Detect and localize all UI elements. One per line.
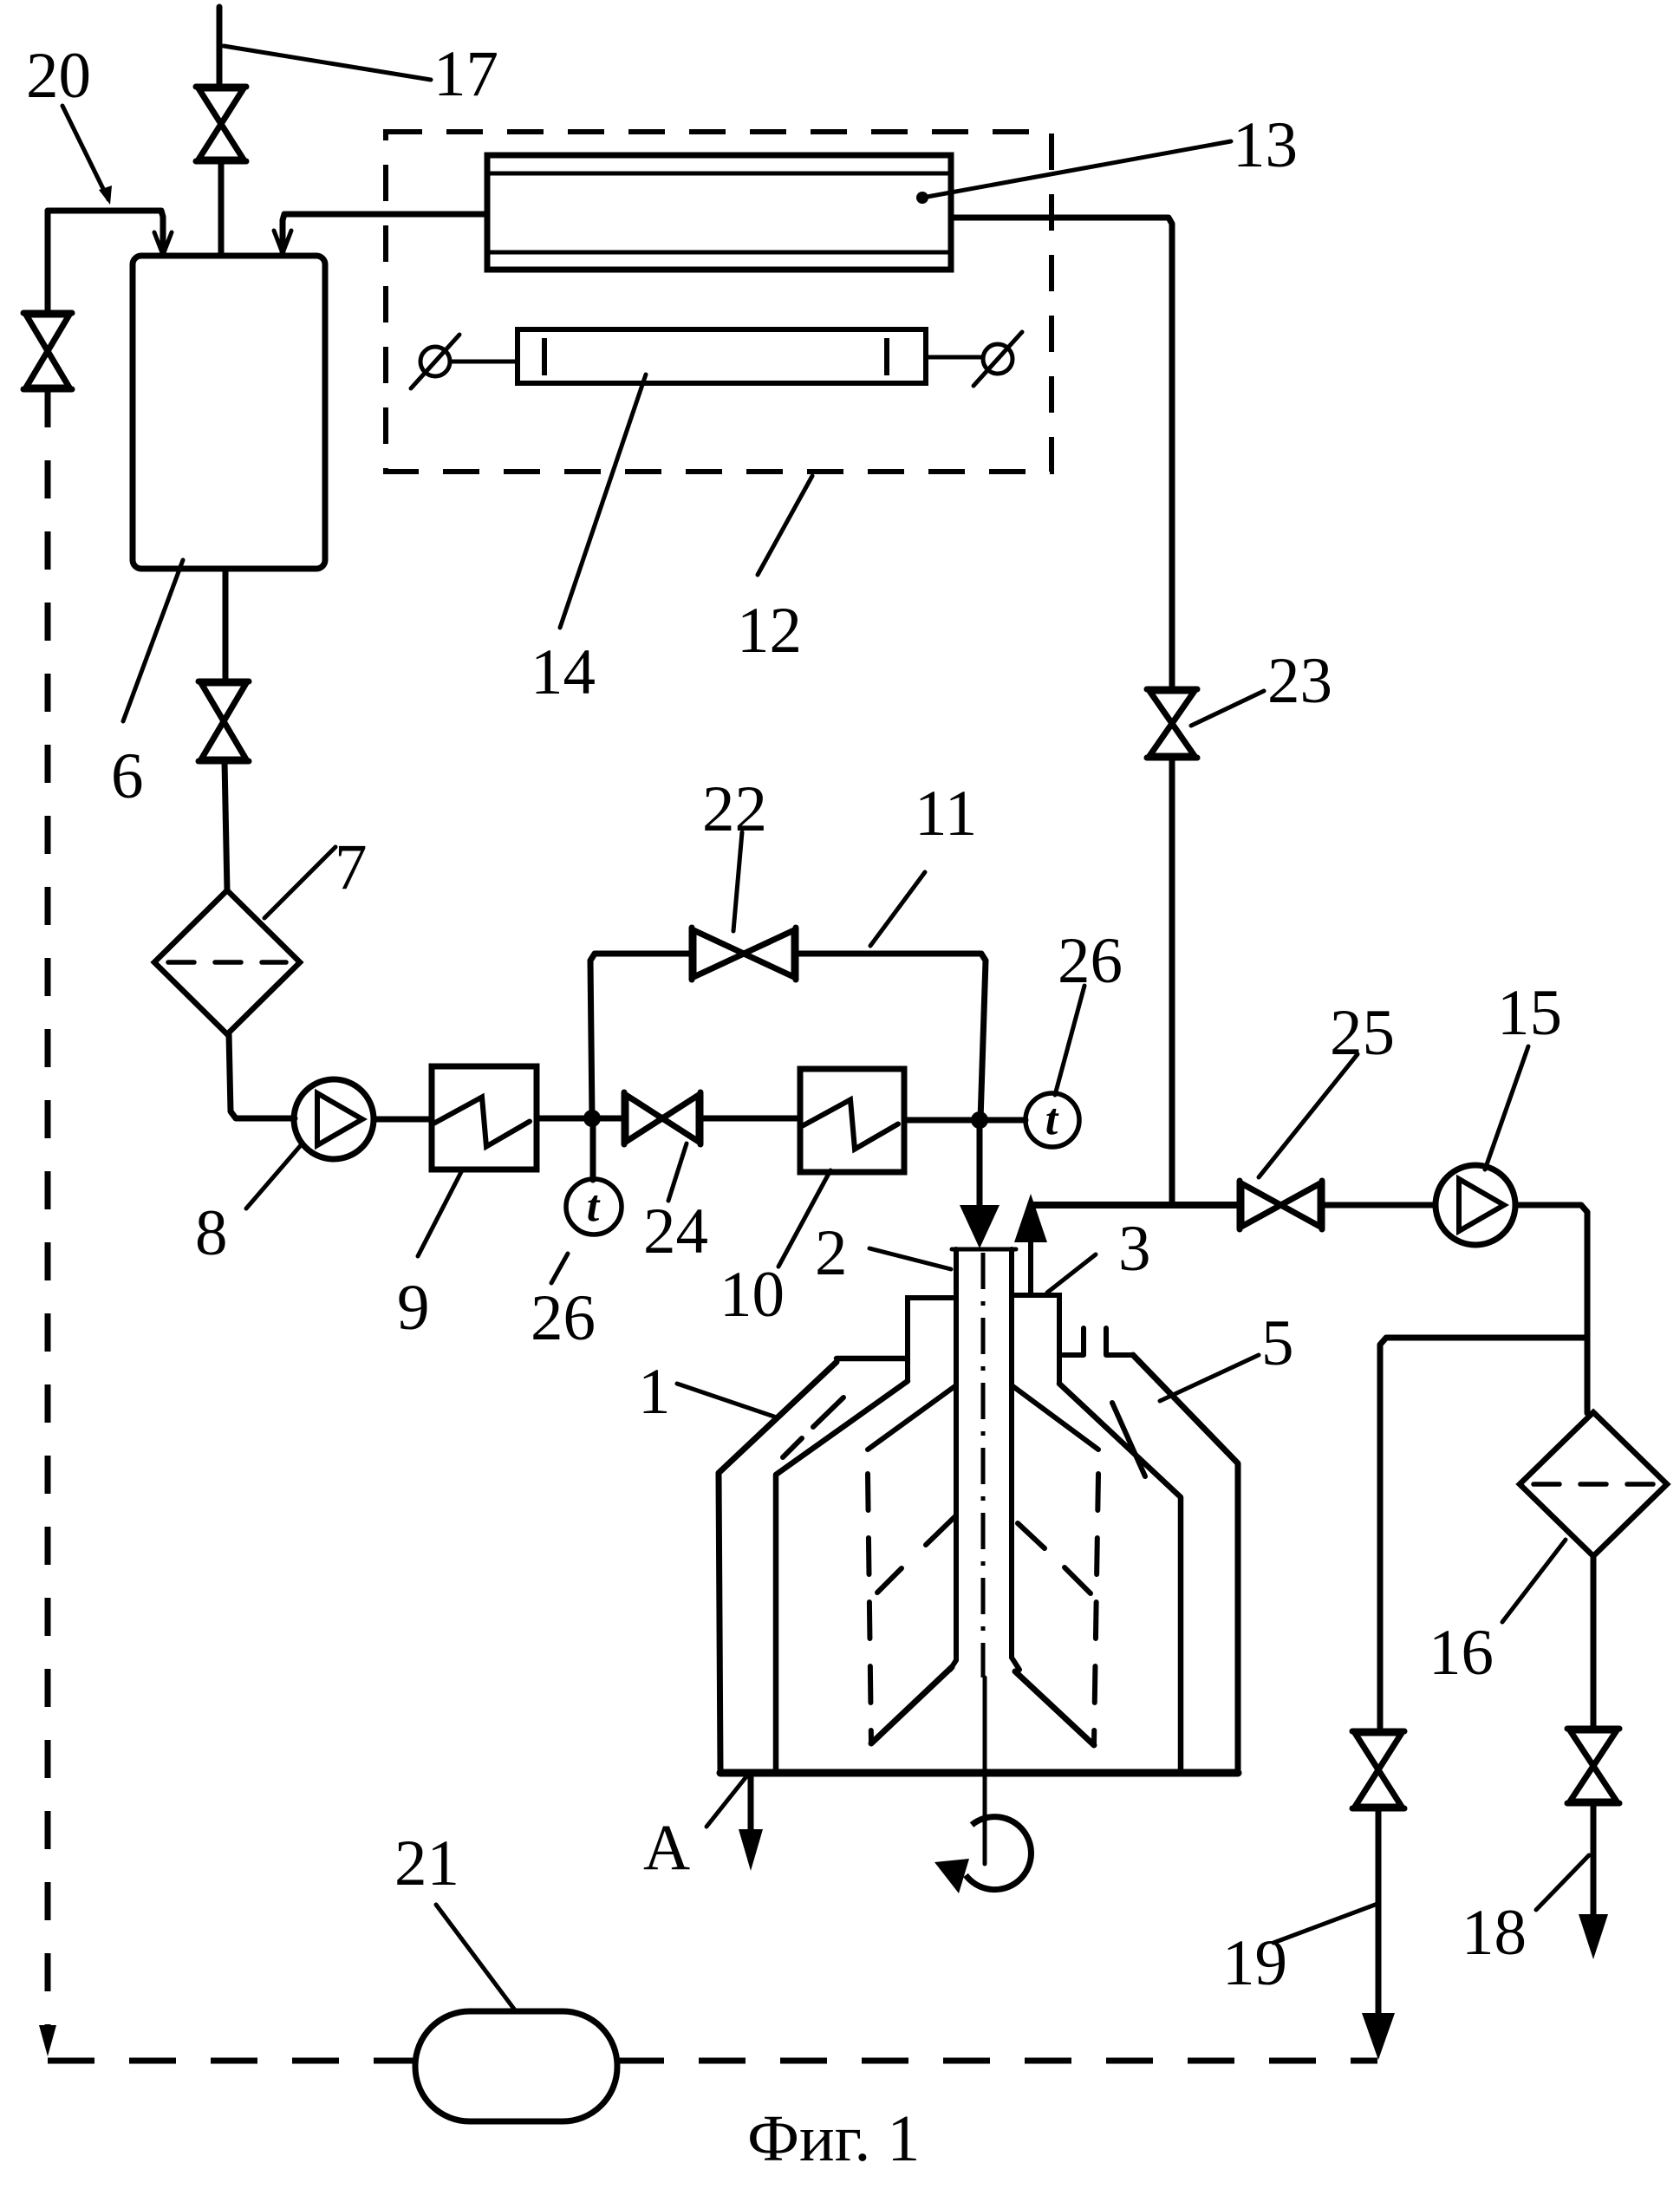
svg-text:13: 13 xyxy=(1233,109,1298,181)
leader 16 xyxy=(1502,1540,1566,1622)
svg-text:14: 14 xyxy=(531,636,596,708)
leader 5 xyxy=(1160,1355,1259,1401)
pipe condenser 13 to valve 23 xyxy=(951,218,1172,689)
valve 17 xyxy=(196,87,246,161)
svg-text:t: t xyxy=(1045,1095,1059,1144)
pipe pump 8 to heater 9 xyxy=(374,1117,432,1123)
rotation symbol xyxy=(966,1817,1031,1890)
arrow into tank left xyxy=(154,232,172,255)
leader 1 xyxy=(677,1384,774,1417)
jacket 5 top plate right with nozzle xyxy=(1063,1328,1084,1355)
svg-text:t: t xyxy=(587,1182,601,1231)
leader 23 xyxy=(1191,691,1264,726)
jacket inner surface hints left xyxy=(813,1397,843,1427)
svg-text:23: 23 xyxy=(1267,645,1332,717)
buffer capsule 21 xyxy=(415,2011,617,2121)
pipe left feed into tank 6 xyxy=(48,211,163,251)
agitator blade right xyxy=(1012,1385,1098,1745)
outlet A xyxy=(748,1774,754,1836)
lead from tube 14 right xyxy=(926,355,983,360)
svg-text:25: 25 xyxy=(1330,997,1395,1069)
leader 26 left xyxy=(551,1254,568,1283)
agitator blade left xyxy=(868,1385,956,1743)
bypass pipe 11 left leg xyxy=(590,954,692,1118)
valve 24 xyxy=(624,1092,700,1144)
valve 20 xyxy=(23,313,72,389)
pipe valve 19 to drain arrow 19 xyxy=(1376,1808,1382,2020)
leader 3 xyxy=(1047,1254,1096,1293)
svg-text:22: 22 xyxy=(702,773,767,845)
leader 15 xyxy=(1485,1046,1528,1169)
svg-text:1: 1 xyxy=(638,1356,671,1428)
pipe pump 15 to down leg xyxy=(1515,1205,1587,1413)
drop to thermometer 26 left xyxy=(590,1118,596,1180)
sensor left of tube 14 xyxy=(411,335,459,388)
pipe to filter 7 xyxy=(225,761,227,891)
leader 2 xyxy=(869,1248,951,1269)
agitator shaft xyxy=(981,1253,986,1678)
pipe filter 16 to valve 18 xyxy=(1591,1556,1597,1729)
feed arrow into draft tube 2 xyxy=(977,1120,983,1210)
pipe valve 24 to heater 10 xyxy=(700,1116,800,1122)
heater tube 14 xyxy=(518,329,926,383)
pipe filter 7 to pump 8 xyxy=(229,1033,295,1118)
svg-text:5: 5 xyxy=(1261,1307,1294,1379)
filter 16 xyxy=(1520,1412,1667,1556)
leader 22 xyxy=(733,832,742,931)
valve 22 xyxy=(692,928,796,980)
leader A xyxy=(707,1775,747,1827)
svg-text:24: 24 xyxy=(643,1195,708,1267)
leader 6 xyxy=(123,560,183,721)
pipe vent above valve 17 xyxy=(217,7,223,87)
svg-text:21: 21 xyxy=(394,1827,459,1899)
svg-text:20: 20 xyxy=(26,40,91,112)
dashed recycle line bottom left segment xyxy=(48,2058,415,2064)
svg-text:26: 26 xyxy=(531,1282,596,1354)
pipe valve 18 to drain arrow 18 xyxy=(1591,1803,1597,1920)
svg-text:3: 3 xyxy=(1118,1213,1151,1285)
heater 9 xyxy=(432,1066,537,1169)
leader 13 start dot xyxy=(916,192,928,204)
leader 12 xyxy=(758,476,812,575)
leader 14 xyxy=(560,375,646,628)
arrowhead recycle line bottom xyxy=(39,2025,56,2056)
leader 8 xyxy=(246,1145,301,1209)
leader 17 xyxy=(224,46,431,80)
junction node right xyxy=(971,1111,988,1129)
pipe heater 9 to junction xyxy=(537,1116,624,1122)
svg-text:10: 10 xyxy=(720,1259,785,1331)
svg-text:2: 2 xyxy=(815,1217,848,1289)
leader 11 xyxy=(870,872,925,946)
heater 10 xyxy=(800,1069,904,1172)
valve 19 xyxy=(1352,1731,1404,1808)
leader 18 xyxy=(1536,1855,1589,1910)
bypass pipe 11 right leg xyxy=(796,954,986,1120)
pipe from condenser 13 to tank 6 xyxy=(283,214,487,251)
pipe tank 6 outlet xyxy=(223,569,229,681)
leader 9 xyxy=(418,1170,462,1256)
jacket 5 wall left xyxy=(719,1362,837,1771)
valve below tank 6 xyxy=(199,681,249,761)
dashed recycle line bottom right segment xyxy=(617,2058,1377,2064)
leader 7 xyxy=(264,847,335,918)
thermometer 26 right xyxy=(1026,1093,1079,1147)
pipe annulus to valve 25 xyxy=(1031,1202,1240,1209)
leader 20 arrow tip xyxy=(99,186,112,205)
branch pipe to valve 19 xyxy=(1380,1338,1587,1731)
valve 25 xyxy=(1240,1181,1322,1229)
draft tube 2 xyxy=(950,1249,1019,1670)
drain arrow 19 xyxy=(1362,2013,1395,2060)
svg-text:A: A xyxy=(643,1812,690,1884)
svg-text:15: 15 xyxy=(1497,977,1562,1049)
leader 21 xyxy=(436,1905,516,2011)
lead to tube 14 left xyxy=(450,360,518,364)
vessel 1 bottom plate xyxy=(720,1769,1238,1777)
inner tank wall right xyxy=(1059,1384,1181,1771)
jacket 5 top plate left xyxy=(837,1356,906,1362)
svg-text:18: 18 xyxy=(1462,1897,1527,1969)
inner tank wall left xyxy=(776,1381,908,1771)
pipe 20 down to valve 20 xyxy=(45,211,51,313)
pump 8 xyxy=(294,1079,374,1159)
svg-text:16: 16 xyxy=(1429,1617,1494,1689)
valve 18 xyxy=(1567,1729,1619,1803)
junction node left xyxy=(583,1110,601,1127)
svg-text:19: 19 xyxy=(1222,1927,1287,1999)
svg-text:11: 11 xyxy=(915,778,977,850)
arrow into tank right xyxy=(274,231,291,253)
tank 6 xyxy=(133,256,325,569)
dashed enclosure 12 xyxy=(386,132,1052,472)
condenser 13 xyxy=(487,155,951,270)
filter 7 xyxy=(154,890,300,1034)
vapour arrow out of annulus 3 xyxy=(1028,1240,1033,1295)
svg-text:17: 17 xyxy=(433,38,498,110)
jacket 5 wall right xyxy=(1133,1355,1238,1771)
pipe heater 10 to thermometer xyxy=(904,1117,1026,1124)
svg-text:7: 7 xyxy=(335,831,368,903)
dashed recycle line left vertical xyxy=(45,389,51,2037)
svg-text:9: 9 xyxy=(397,1272,430,1344)
leader 26 right xyxy=(1055,986,1084,1095)
svg-text:12: 12 xyxy=(737,595,802,667)
sensor right of tube 14 xyxy=(973,332,1022,386)
leader 20 xyxy=(62,106,108,199)
pipe valve 23 down to tee xyxy=(1169,758,1175,1205)
jacket inner surface hint right xyxy=(1112,1403,1145,1476)
valve 23 xyxy=(1147,689,1197,758)
drain arrow 18 xyxy=(1579,1914,1608,1959)
svg-text:Фиг. 1: Фиг. 1 xyxy=(747,2102,920,2175)
pipe valve 25 to pump 15 xyxy=(1322,1202,1436,1209)
svg-text:26: 26 xyxy=(1058,925,1123,997)
leader 19 xyxy=(1273,1904,1377,1943)
thermometer 26 left xyxy=(566,1179,622,1235)
svg-text:6: 6 xyxy=(111,740,144,812)
leader 24 xyxy=(668,1143,687,1201)
leader 25 xyxy=(1259,1054,1358,1177)
svg-text:8: 8 xyxy=(195,1197,228,1269)
pipe valve17 to tank6 xyxy=(218,161,225,256)
leader 10 xyxy=(778,1170,830,1267)
leader 13 xyxy=(922,141,1231,198)
annulus neck 3 xyxy=(908,1295,1059,1384)
pump 15 xyxy=(1436,1165,1515,1245)
